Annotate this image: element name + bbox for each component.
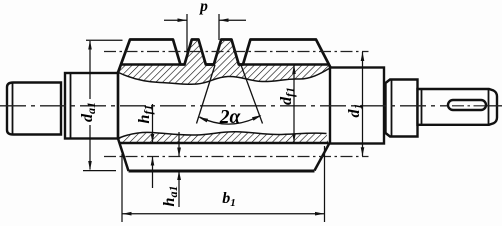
svg-text:p: p bbox=[198, 0, 208, 15]
svg-text:2α: 2α bbox=[219, 107, 242, 128]
